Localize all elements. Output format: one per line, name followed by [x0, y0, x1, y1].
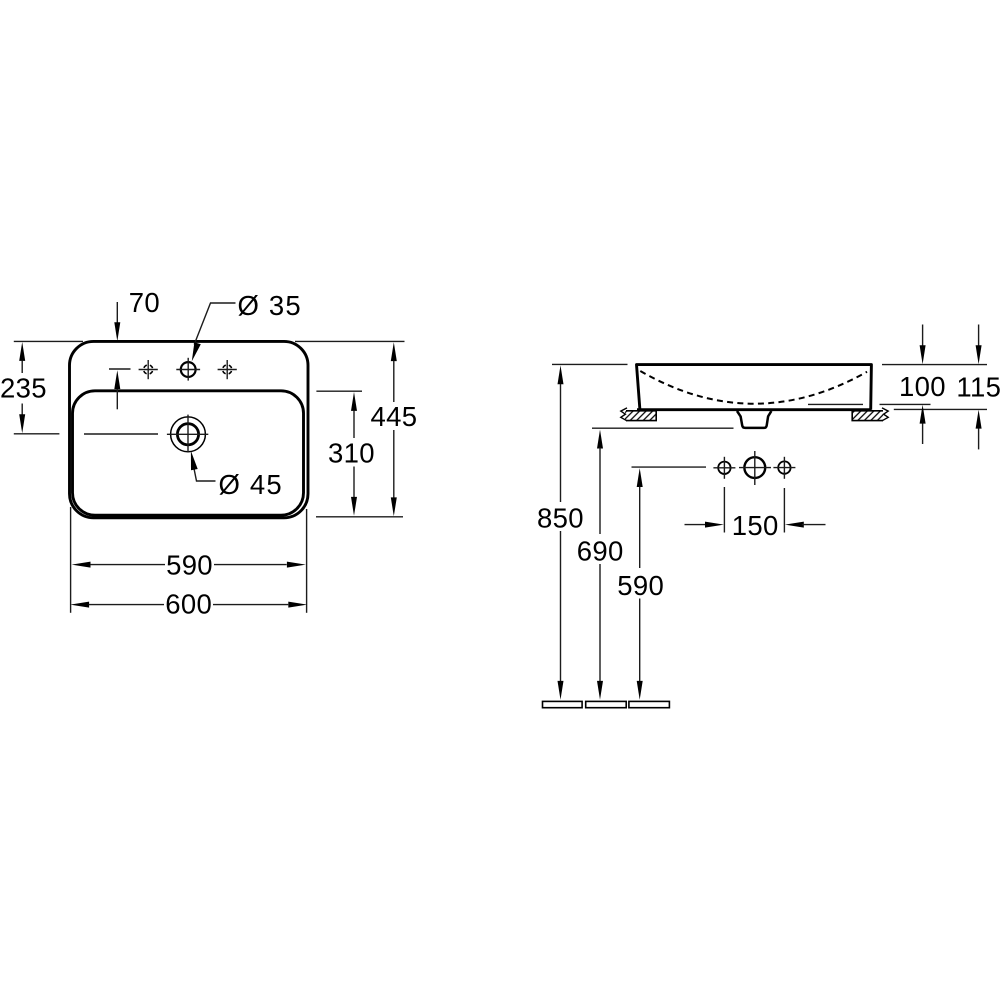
extension line hole axis (590) [632, 466, 707, 468]
floor reference tiles [543, 701, 670, 707]
dimension 235 [0, 342, 47, 433]
extension line 310 top [316, 390, 362, 392]
dimension 310 [328, 392, 375, 516]
inner bowl dashed curve [640, 371, 867, 404]
left optional faucet hole marker [139, 360, 158, 379]
inner basin rim outline [73, 391, 304, 515]
left faucet hole (front view) [713, 457, 735, 479]
inner bottom reference line [808, 403, 863, 405]
svg-text:150: 150 [732, 510, 779, 541]
dimension 850 [537, 365, 584, 699]
svg-text:235: 235 [0, 372, 47, 403]
dimension 70 (hole line offset) [109, 287, 160, 410]
right optional faucet hole marker [218, 360, 237, 379]
svg-text:850: 850 [537, 502, 584, 533]
outer basin outline (600 x 445) [70, 341, 309, 517]
svg-text:Ø 35: Ø 35 [238, 290, 302, 321]
extension line 235 bottom [14, 433, 60, 435]
dimension 100 [899, 325, 946, 445]
drain centerline [84, 433, 158, 435]
dimension 445 [371, 342, 418, 516]
extension line trap bottom (690) [592, 427, 734, 429]
svg-text:70: 70 [129, 287, 160, 318]
extension line basin top right (100/115) [882, 364, 987, 366]
extension line top left [14, 340, 83, 342]
center faucet hole (front view) [739, 451, 771, 485]
svg-text:100: 100 [899, 371, 946, 402]
svg-text:600: 600 [165, 589, 212, 620]
extension line 150 left [723, 487, 725, 533]
drain trap [737, 411, 771, 428]
dimension 115 [956, 325, 1000, 450]
right faucet hole (front view) [773, 457, 795, 479]
svg-text:115: 115 [956, 371, 1000, 402]
basin body outline [637, 365, 872, 410]
svg-text:445: 445 [371, 401, 418, 432]
svg-text:Ø 45: Ø 45 [219, 469, 283, 500]
svg-text:310: 310 [328, 437, 375, 468]
extension line basin top left (850) [552, 363, 628, 365]
svg-text:590: 590 [617, 570, 664, 601]
extension line 150 right [783, 488, 785, 533]
leader and label diameter 45 [191, 451, 283, 500]
dimension 600 (overall width) [70, 589, 307, 620]
extension line top right (445) [295, 340, 405, 342]
svg-text:590: 590 [166, 549, 213, 580]
dimension 690 [577, 430, 624, 700]
extension line 590/600 left [70, 507, 72, 613]
svg-text:690: 690 [577, 535, 624, 566]
extension line basin bottom right (115) [894, 408, 987, 410]
extension line 590/600 right [306, 509, 308, 613]
leader and label diameter 35 [192, 290, 302, 362]
dimension 590 (height, front view) [617, 468, 664, 700]
dimension 150 (hole spacing) [685, 510, 826, 541]
left wall bracket (hatched) [621, 408, 656, 421]
extension line inner bottom right (100) [880, 403, 931, 405]
dimension 590 (width) [72, 549, 306, 580]
drain hole (Ø45) [167, 415, 208, 453]
center faucet hole (Ø35) [176, 358, 200, 381]
right wall bracket (hatched) [852, 408, 888, 421]
extension line 310/445 bottom [316, 516, 403, 518]
